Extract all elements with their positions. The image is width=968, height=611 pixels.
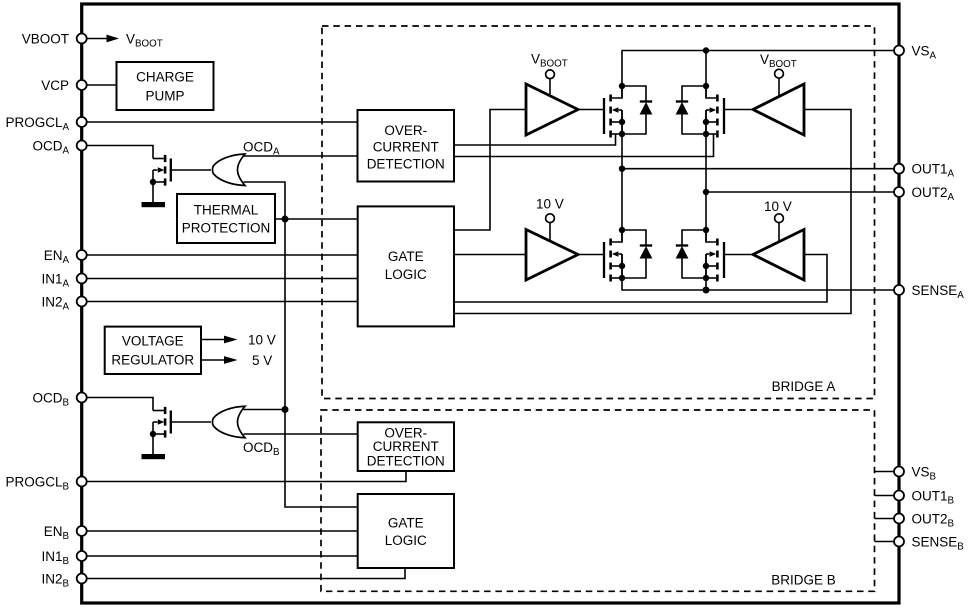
svg-text:VBOOT: VBOOT	[22, 31, 69, 46]
svg-text:LOGIC: LOGIC	[385, 267, 427, 282]
wire VS_B stub	[875, 471, 895, 473]
wire PROGCL_A to over-current detection A	[86, 121, 358, 123]
pin OCD_B	[32, 390, 86, 408]
wire over-current detection A to OR gate A input	[244, 155, 358, 157]
gate logic A block	[358, 206, 454, 326]
svg-text:OVER-: OVER-	[384, 123, 427, 138]
pin IN2_B	[41, 571, 86, 589]
svg-text:10 V: 10 V	[536, 197, 564, 212]
wire right half-bridge rail bottom	[705, 254, 707, 290]
arrow 5V regulator output	[201, 353, 272, 368]
wire gate logic A to low-side left buffer	[454, 254, 526, 256]
pin OUT1_B	[894, 488, 955, 506]
pin SENSE_B	[894, 534, 964, 552]
svg-text:CHARGE: CHARGE	[136, 70, 194, 85]
wire OR gate B upper input to trunk	[244, 409, 286, 411]
gate logic B block	[358, 494, 454, 568]
wire OCD_B pin to transistor drain	[86, 398, 153, 411]
transistor OCD_B open-drain	[142, 407, 171, 459]
bridge B dashed boundary	[321, 410, 875, 591]
supply tap 10V left	[536, 197, 564, 242]
transistor M1 high-side left with body diode	[604, 83, 652, 138]
op-amp buffer low-side left driver	[526, 230, 578, 281]
wire IN2_A to gate logic A	[86, 301, 358, 303]
pin SENSE_A	[894, 283, 964, 301]
svg-text:10 V: 10 V	[764, 199, 792, 214]
pin VCP	[41, 78, 86, 93]
or-gate A (OCD comparator output)	[212, 154, 245, 186]
svg-text:VCP: VCP	[41, 78, 69, 93]
node junction VS rail right branch	[703, 47, 709, 53]
wire EN_A to gate logic A	[86, 254, 358, 256]
wire gate logic A to low-side right buffer	[454, 255, 827, 303]
pin IN2_A	[41, 294, 86, 312]
wire left half-bridge rail to sense	[622, 254, 895, 290]
wire PROGCL_B to over-current detection B	[86, 471, 406, 482]
wire SENSE_B stub	[875, 541, 895, 543]
arrow 10V regulator output	[201, 333, 276, 348]
pin OUT1_A	[894, 162, 955, 180]
wire OR gate A lower input to thermal node	[244, 182, 286, 219]
node junction OUT1_A	[619, 166, 625, 172]
pin IN1_A	[41, 271, 86, 289]
wire OR gate A output to transistor gate	[171, 169, 211, 171]
wire IN1_B to gate logic B	[86, 555, 358, 557]
pin EN_B	[44, 524, 87, 542]
svg-text:GATE: GATE	[388, 249, 424, 264]
node junction thermal protection	[282, 216, 289, 223]
pin PROGCL_A	[5, 115, 86, 133]
svg-text:VOLTAGE: VOLTAGE	[122, 334, 184, 349]
supply tap V_BOOT left	[531, 52, 568, 97]
op-amp buffer high-side left driver	[526, 84, 578, 135]
node junction trunk to OR gate B	[282, 406, 289, 413]
transistor OCD_A open-drain	[142, 155, 171, 207]
wire VBOOT pin arrow	[86, 35, 119, 43]
pin OUT2_A	[894, 185, 955, 203]
transistor M3 low-side left with body diode	[604, 227, 652, 282]
bridge A dashed boundary	[322, 26, 875, 399]
op-amp buffer high-side right driver	[753, 84, 804, 135]
wire M2 source sense to over-current detection A	[454, 134, 714, 157]
supply tap 10V right	[764, 199, 792, 242]
svg-text:DETECTION: DETECTION	[367, 156, 445, 171]
wire OUT1_B stub	[875, 495, 895, 497]
pin IN1_B	[41, 549, 86, 567]
wire OUT2_A	[706, 191, 895, 193]
or-gate B	[212, 406, 245, 438]
wire buffer to mosfet M4 gate	[724, 254, 753, 256]
wire OCD_A pin to transistor drain	[86, 146, 153, 159]
svg-text:CURRENT: CURRENT	[373, 140, 439, 155]
svg-text:10 V: 10 V	[248, 333, 276, 348]
wire buffer to mosfet M1 gate	[578, 109, 604, 111]
over-current detection B block	[358, 422, 454, 471]
charge pump block	[117, 62, 214, 110]
pin VS_B	[894, 464, 937, 482]
wire thermal protection output to gate logic A	[275, 218, 358, 220]
wire EN_B to gate logic B	[86, 530, 358, 532]
wire buffer to mosfet M3 gate	[578, 254, 604, 256]
wire gate logic A to high-side right buffer	[454, 110, 851, 314]
svg-text:BRIDGE A: BRIDGE A	[772, 379, 836, 394]
svg-text:PUMP: PUMP	[145, 89, 184, 104]
over-current detection A block	[358, 110, 455, 182]
svg-text:REGULATOR: REGULATOR	[111, 353, 194, 368]
wire OUT2_B stub	[875, 518, 895, 520]
pin PROGCL_B	[5, 474, 86, 492]
wire over-current detection B to OR gate B input	[244, 433, 358, 435]
wire M1 source sense to over-current detection A	[454, 134, 616, 145]
svg-text:DETECTION: DETECTION	[367, 453, 445, 468]
wire VCP to charge pump	[86, 84, 117, 86]
voltage regulator block	[105, 327, 201, 374]
wire OR gate B output to transistor gate	[171, 421, 211, 423]
pin EN_A	[44, 248, 87, 266]
wire IN2_B to gate logic B	[86, 568, 405, 579]
pin VS_A	[894, 43, 937, 61]
svg-text:5 V: 5 V	[252, 353, 272, 368]
svg-text:BRIDGE B: BRIDGE B	[771, 573, 836, 588]
wire OUT1_A	[622, 168, 895, 170]
wire right half-bridge rail top	[705, 51, 707, 99]
wire left half-bridge rail mid	[621, 110, 623, 242]
op-amp buffer low-side right driver	[753, 230, 804, 281]
wire buffer to mosfet M2 gate	[724, 109, 753, 111]
svg-text:OVER-: OVER-	[384, 425, 427, 440]
svg-text:CURRENT: CURRENT	[373, 439, 439, 454]
supply tap V_BOOT right	[760, 52, 797, 96]
thermal protection block	[177, 194, 275, 243]
wire gate logic A to high-side left buffer	[454, 110, 526, 231]
pin OUT2_B	[894, 511, 955, 529]
pin VBOOT	[22, 31, 87, 46]
wire thermal trunk down to bridge B	[285, 219, 358, 507]
transistor M4 low-side right with body diode	[676, 227, 724, 282]
wire right half-bridge rail mid	[705, 110, 707, 242]
wire IN1_A to gate logic A	[86, 278, 358, 280]
svg-text:PROTECTION: PROTECTION	[182, 221, 271, 236]
wire VS_A supply rail	[622, 51, 895, 99]
node junction SENSE_A	[703, 287, 710, 294]
transistor M2 high-side right with body diode	[676, 83, 724, 138]
node junction OUT2_A	[703, 189, 709, 195]
pin OCD_A	[32, 138, 86, 156]
svg-text:THERMAL: THERMAL	[194, 203, 259, 218]
svg-text:LOGIC: LOGIC	[385, 533, 427, 548]
svg-text:GATE: GATE	[388, 516, 424, 531]
